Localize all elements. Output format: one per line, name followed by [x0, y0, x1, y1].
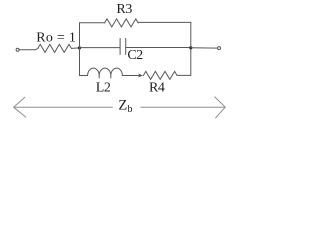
wire bottom left [80, 75, 88, 77]
Zb arrowhead left [14, 97, 26, 117]
wire left lead [19, 48, 38, 49]
terminal left [16, 48, 19, 51]
svg-text:Ro = 1: Ro = 1 [36, 30, 76, 45]
svg-text:R3: R3 [116, 2, 132, 17]
resistor Ro [38, 44, 72, 52]
wire top left [80, 22, 105, 24]
wire C2 to node B [126, 47, 191, 49]
svg-text:C2: C2 [127, 48, 143, 63]
wire top right [138, 21, 191, 23]
wire R4 to right vertical [177, 74, 191, 76]
wire left vertical [79, 23, 81, 76]
resistor R4 [143, 71, 177, 79]
resistor R3 [105, 19, 139, 27]
wire node B to right terminal [191, 47, 218, 49]
svg-text:L2: L2 [96, 80, 111, 95]
inductor L2 [88, 68, 123, 75]
node B junction dot [189, 46, 192, 49]
wire Ro to node A [71, 47, 79, 50]
terminal right [218, 47, 221, 50]
wire node A to C2 [80, 47, 121, 49]
wire L2 to R4 [122, 75, 142, 77]
svg-text:R4: R4 [149, 81, 165, 96]
current arrow on wire [138, 73, 143, 77]
Zb arrow shaft left [14, 106, 112, 108]
capacitor C2 [120, 39, 126, 55]
wire right vertical [190, 22, 192, 75]
inductor cusp ticks [99, 76, 111, 79]
Zb arrowhead right [215, 97, 225, 118]
node A junction dot [78, 46, 81, 49]
Zb arrow shaft right [141, 106, 225, 108]
svg-text:Zb: Zb [118, 98, 132, 115]
